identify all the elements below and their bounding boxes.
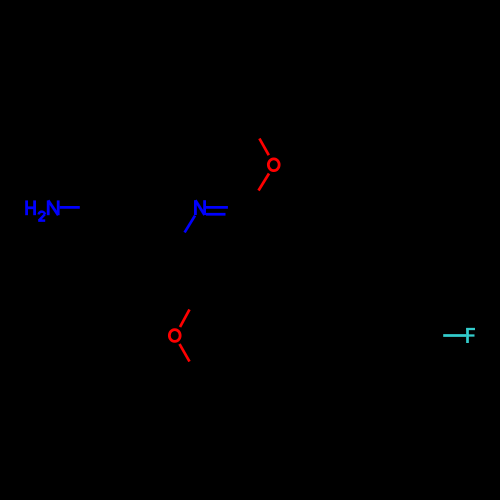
bond N=C2 main line (blue half)	[206, 206, 228, 209]
methoxy O (top)	[268, 159, 279, 171]
bond C-F (cyan half)	[443, 334, 466, 337]
methoxy O (bottom)	[169, 330, 180, 342]
bond O-CH3 bottom (red half)	[180, 344, 190, 362]
amine label H2N	[27, 200, 59, 215]
bond O-CH3 top (red half)	[259, 139, 268, 156]
bond H2N-CH2 (blue half)	[60, 206, 80, 209]
amine subscript 2	[38, 212, 45, 221]
pyridine N label	[195, 200, 204, 215]
bond N=C2 inner line (blue half)	[206, 213, 226, 216]
bond N-C6 (blue half)	[185, 216, 195, 233]
bond O-C5 (red half)	[180, 310, 190, 328]
fluorine F label	[466, 328, 475, 343]
bond O-C2 (red half)	[259, 174, 270, 191]
